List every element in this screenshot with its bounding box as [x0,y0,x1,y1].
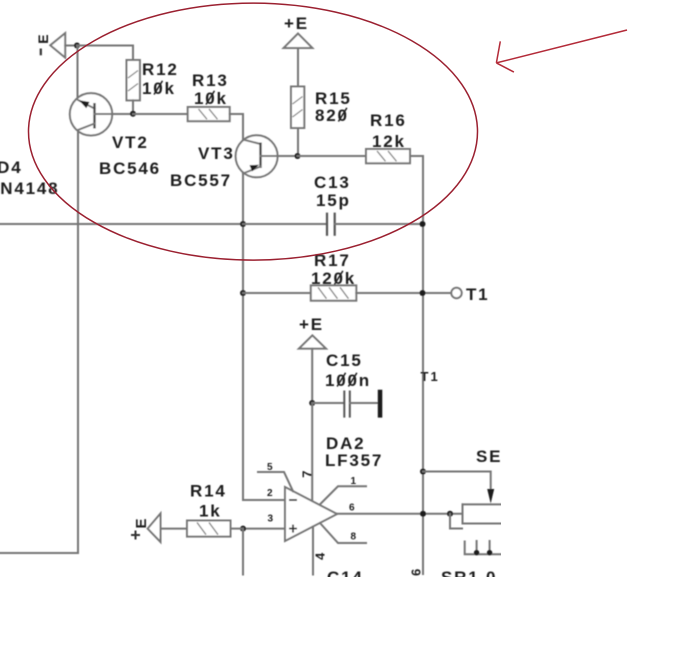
capacitor C15 [312,390,382,418]
svg-text:VT3: VT3 [198,144,235,163]
svg-text:4: 4 [313,552,328,560]
annotation red arrow [496,30,627,72]
pin 4 wire down (cut) [312,527,314,575]
wire SE branch [423,472,491,490]
wire L-step below box [450,514,462,529]
svg-text:T1: T1 [466,285,489,304]
op-amp DA2 [285,487,337,541]
wire -E to junction [65,45,77,47]
node +E power symbol (top) [284,14,313,48]
wire +E to R15 [297,48,299,87]
svg-text:15p: 15p [316,191,351,210]
node junction C13 right [420,221,426,227]
wire R16 to right rail [410,156,423,574]
transistor VT2 [70,93,133,135]
node terminal T1 [451,288,461,298]
svg-text:R14: R14 [190,482,227,501]
svg-text:+E: +E [284,14,309,33]
svg-text:12k: 12k [372,132,406,151]
wire pin3 node down (cut) [242,529,244,575]
svg-text:3: 3 [268,514,274,525]
svg-text:7: 7 [300,471,315,478]
SE wiper arrow [487,489,494,504]
svg-text:120k: 120k [311,269,356,288]
regulator SE box (cut) [463,504,504,523]
svg-text:10k: 10k [142,79,176,98]
wire junction down to VT2 emitter [77,46,79,101]
wire R13 to VT3 base [230,114,243,140]
svg-text:C15: C15 [326,351,363,370]
svg-text:R16: R16 [370,111,407,130]
resistor R14 [187,521,243,537]
node junction R17 left [240,290,246,296]
svg-text:BC557: BC557 [170,171,232,190]
wire base node to R13 [133,113,188,115]
node junction C15 [309,400,315,406]
wire left rail (VT3 emitter down to op-amp) [242,174,244,501]
svg-text:T1: T1 [421,369,440,384]
svg-text:8: 8 [351,532,357,543]
node junction R17 right [420,290,426,296]
svg-text:R13: R13 [192,71,229,90]
svg-text:820: 820 [315,106,349,125]
node junction C13 left [240,221,246,227]
wire R15 node to R16 [298,155,367,157]
node junction output/box [447,511,453,517]
svg-text:VT2: VT2 [112,133,149,152]
svg-text:LF357: LF357 [325,451,383,470]
pin 8 stub [320,523,366,543]
node junction output/rail [420,511,426,517]
node junction SE branch [420,469,426,475]
svg-text:R12: R12 [142,60,179,79]
resistor R16 [366,149,410,163]
node -E power symbol [35,33,65,58]
white crop bottom edge [0,577,687,645]
pin 6 output wire [337,513,463,515]
svg-text:E: E [133,518,150,528]
svg-text:5: 5 [267,462,273,473]
transistor VT3 [236,135,298,177]
pin 1 stub [320,486,366,504]
white crop right edge [501,0,687,645]
wire VT2 collector down and left to edge [0,130,78,553]
node junction A (-E rail) [74,43,80,49]
svg-text:VD4: VD4 [0,158,22,177]
svg-text:6: 6 [409,569,424,576]
wire +E to R14 [161,528,188,530]
svg-text:BC546: BC546 [99,159,161,178]
resistor R17 [243,285,451,300]
capacitor C13 [243,213,423,236]
svg-text:1k: 1k [199,502,222,521]
pin 2 wire [243,499,285,501]
svg-text:C13: C13 [314,173,351,192]
resistor R15 [291,87,304,157]
svg-text:6: 6 [349,503,355,514]
wire +E down to supply node [311,349,313,403]
connector pins (cut, bottom right) [465,541,503,555]
node junction R12/base [130,111,136,117]
resistor R13 [188,107,230,121]
annotation red ellipse [29,3,478,260]
pin 5 stub [258,472,293,491]
node junction R15 bottom [295,153,301,159]
node +E power symbol (bottom) [299,315,326,349]
node junction R14/pin3 [240,526,246,532]
node +E power symbol (left, at R14) [131,514,161,543]
svg-text:1N4148: 1N4148 [0,179,59,198]
svg-text:100n: 100n [325,371,371,390]
svg-text:1: 1 [351,476,357,487]
svg-text:E: E [35,34,51,43]
wire left edge line [0,223,243,225]
svg-text:10k: 10k [194,89,228,108]
wire supply node to op-amp pin7 [311,403,313,501]
svg-text:+E: +E [299,315,324,334]
wire junction to R12 top [77,46,133,61]
pin 3 wire [243,528,285,530]
svg-text:2: 2 [267,488,273,499]
resistor R12 [127,60,140,114]
